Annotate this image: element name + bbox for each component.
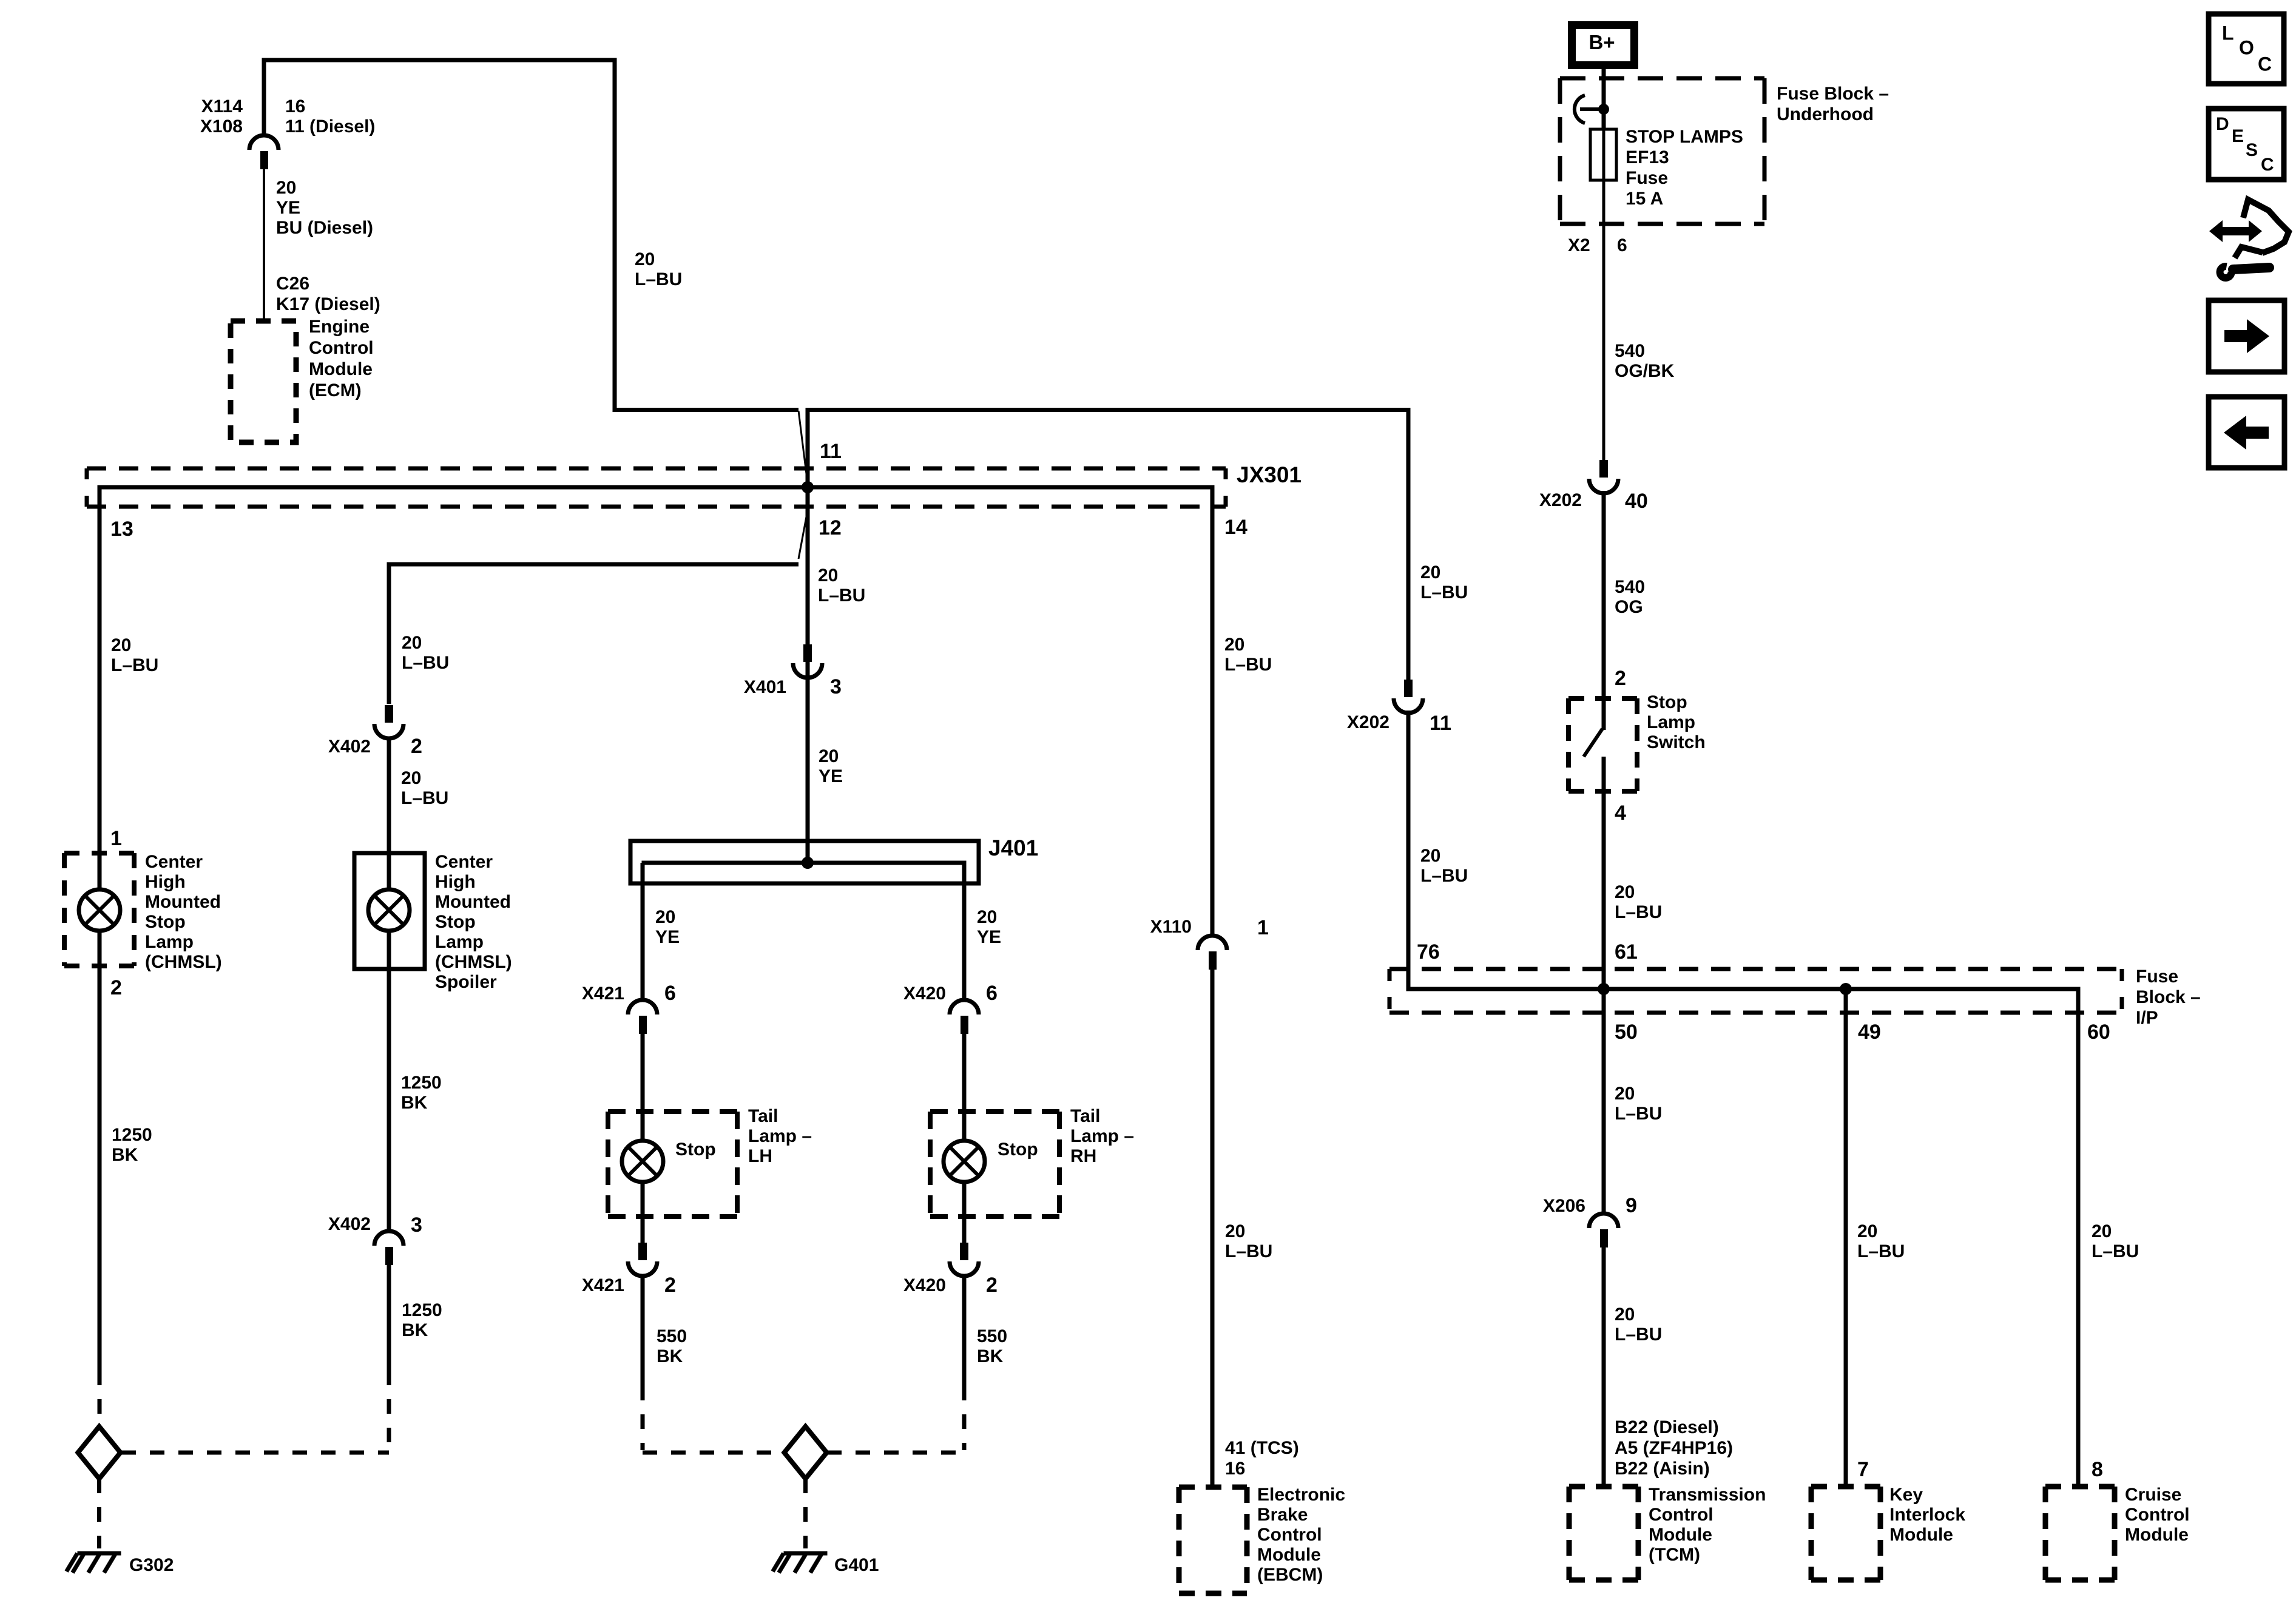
- svg-text:2: 2: [411, 735, 422, 758]
- svg-text:X2: X2: [1568, 235, 1590, 255]
- svg-text:2: 2: [664, 1274, 676, 1297]
- svg-text:20: 20: [1615, 882, 1635, 902]
- svg-text:Stop: Stop: [1647, 692, 1687, 712]
- svg-text:Lamp –: Lamp –: [1070, 1126, 1134, 1146]
- svg-text:550: 550: [977, 1326, 1007, 1346]
- svg-text:7: 7: [1857, 1458, 1869, 1481]
- svg-text:20: 20: [1615, 1084, 1635, 1104]
- svg-text:JX301: JX301: [1237, 462, 1302, 487]
- svg-text:L–BU: L–BU: [1420, 866, 1468, 886]
- svg-text:(CHMSL): (CHMSL): [145, 952, 222, 972]
- svg-text:Center: Center: [435, 852, 493, 872]
- svg-text:YE: YE: [276, 198, 300, 218]
- svg-text:Key: Key: [1889, 1485, 1923, 1505]
- svg-text:Brake: Brake: [1257, 1505, 1308, 1525]
- svg-text:20: 20: [977, 907, 997, 927]
- svg-text:E: E: [2232, 126, 2244, 146]
- svg-text:G302: G302: [129, 1555, 174, 1575]
- svg-text:20: 20: [818, 565, 838, 586]
- svg-text:Underhood: Underhood: [1777, 104, 1874, 124]
- svg-text:20: 20: [1857, 1221, 1877, 1241]
- svg-text:41 (TCS): 41 (TCS): [1225, 1438, 1299, 1458]
- svg-text:G401: G401: [834, 1555, 879, 1575]
- svg-text:Transmission: Transmission: [1649, 1485, 1766, 1505]
- svg-text:550: 550: [657, 1326, 687, 1346]
- svg-text:20: 20: [2092, 1221, 2112, 1241]
- svg-text:L–BU: L–BU: [2092, 1241, 2139, 1261]
- svg-text:Fuse: Fuse: [1626, 168, 1668, 188]
- svg-text:BK: BK: [112, 1145, 138, 1165]
- svg-text:20: 20: [1225, 1221, 1245, 1241]
- svg-text:16: 16: [1225, 1459, 1245, 1479]
- svg-text:I/P: I/P: [2136, 1008, 2158, 1028]
- svg-text:Electronic: Electronic: [1257, 1485, 1345, 1505]
- svg-text:BK: BK: [402, 1320, 428, 1340]
- svg-text:20: 20: [635, 249, 655, 269]
- svg-text:76: 76: [1417, 940, 1440, 964]
- svg-text:Lamp: Lamp: [1647, 712, 1695, 732]
- svg-text:Stop: Stop: [998, 1139, 1038, 1160]
- svg-text:BK: BK: [657, 1346, 683, 1366]
- svg-text:540: 540: [1615, 577, 1645, 597]
- svg-text:Stop: Stop: [145, 912, 186, 932]
- svg-text:BK: BK: [977, 1346, 1004, 1366]
- svg-text:A5 (ZF4HP16): A5 (ZF4HP16): [1615, 1438, 1733, 1458]
- svg-text:X206: X206: [1543, 1196, 1585, 1216]
- svg-text:Control: Control: [1649, 1505, 1714, 1525]
- svg-text:9: 9: [1626, 1194, 1637, 1217]
- svg-text:11: 11: [820, 440, 842, 463]
- svg-text:Module: Module: [1257, 1545, 1321, 1565]
- svg-text:(ECM): (ECM): [309, 380, 362, 400]
- svg-text:B22 (Aisin): B22 (Aisin): [1615, 1459, 1710, 1479]
- svg-text:J401: J401: [988, 836, 1038, 860]
- svg-text:L–BU: L–BU: [818, 586, 865, 606]
- svg-text:Tail: Tail: [1070, 1106, 1100, 1126]
- svg-text:High: High: [435, 872, 476, 892]
- svg-text:(EBCM): (EBCM): [1257, 1565, 1323, 1585]
- svg-text:X421: X421: [582, 984, 624, 1004]
- svg-text:Module: Module: [2125, 1525, 2189, 1545]
- svg-text:2: 2: [1615, 667, 1626, 690]
- svg-text:20: 20: [276, 178, 296, 198]
- svg-text:B22 (Diesel): B22 (Diesel): [1615, 1417, 1719, 1437]
- svg-text:Fuse: Fuse: [2136, 967, 2178, 987]
- svg-text:L–BU: L–BU: [401, 788, 448, 808]
- svg-text:S: S: [2246, 140, 2258, 160]
- svg-text:YE: YE: [655, 927, 680, 947]
- svg-text:Spoiler: Spoiler: [435, 972, 497, 992]
- svg-text:20: 20: [1615, 1305, 1635, 1325]
- svg-text:Switch: Switch: [1647, 732, 1706, 752]
- svg-text:L–BU: L–BU: [635, 269, 682, 289]
- svg-text:Module: Module: [309, 359, 373, 379]
- svg-text:X202: X202: [1539, 490, 1582, 510]
- svg-text:Cruise: Cruise: [2125, 1485, 2181, 1505]
- svg-text:4: 4: [1615, 802, 1626, 825]
- svg-text:Mounted: Mounted: [145, 892, 221, 912]
- svg-text:11: 11: [1430, 712, 1451, 735]
- svg-text:20: 20: [401, 768, 421, 788]
- svg-text:OG: OG: [1615, 597, 1643, 617]
- svg-text:K17 (Diesel): K17 (Diesel): [276, 294, 380, 314]
- svg-text:B+: B+: [1589, 31, 1615, 53]
- svg-text:STOP LAMPS: STOP LAMPS: [1626, 127, 1743, 147]
- svg-text:20: 20: [1420, 846, 1440, 866]
- svg-text:20: 20: [1224, 635, 1244, 655]
- svg-text:2: 2: [986, 1274, 998, 1297]
- svg-text:X110: X110: [1150, 917, 1192, 937]
- svg-text:Center: Center: [145, 852, 203, 872]
- svg-text:11 (Diesel): 11 (Diesel): [285, 116, 375, 137]
- svg-text:12: 12: [819, 516, 842, 539]
- svg-text:3: 3: [411, 1214, 422, 1237]
- svg-text:Module: Module: [1649, 1525, 1712, 1545]
- svg-text:L–BU: L–BU: [1615, 1104, 1662, 1124]
- svg-text:3: 3: [830, 675, 842, 698]
- svg-text:Control: Control: [2125, 1505, 2190, 1525]
- svg-text:L–BU: L–BU: [402, 653, 449, 673]
- svg-text:2: 2: [110, 976, 122, 999]
- svg-text:L: L: [2222, 22, 2234, 44]
- svg-text:(TCM): (TCM): [1649, 1545, 1700, 1565]
- svg-text:LH: LH: [748, 1146, 772, 1166]
- svg-text:YE: YE: [977, 927, 1001, 947]
- svg-text:Control: Control: [1257, 1525, 1322, 1545]
- svg-text:Fuse Block –: Fuse Block –: [1777, 84, 1889, 104]
- svg-text:D: D: [2216, 114, 2229, 134]
- svg-text:BK: BK: [401, 1093, 428, 1113]
- svg-text:EF13: EF13: [1626, 147, 1669, 167]
- svg-text:RH: RH: [1070, 1146, 1096, 1166]
- svg-text:L–BU: L–BU: [1420, 582, 1468, 603]
- svg-text:Stop: Stop: [435, 912, 476, 932]
- svg-text:40: 40: [1625, 490, 1648, 513]
- svg-text:60: 60: [2087, 1021, 2110, 1044]
- svg-text:6: 6: [1617, 235, 1627, 255]
- svg-text:C26: C26: [276, 274, 309, 294]
- svg-text:O: O: [2239, 36, 2254, 58]
- svg-text:BU (Diesel): BU (Diesel): [276, 218, 373, 238]
- svg-text:14: 14: [1224, 516, 1248, 539]
- svg-text:X402: X402: [328, 737, 371, 757]
- svg-text:Mounted: Mounted: [435, 892, 511, 912]
- svg-text:X108: X108: [200, 116, 243, 137]
- svg-text:16: 16: [285, 96, 305, 116]
- svg-text:13: 13: [110, 518, 133, 541]
- svg-text:540: 540: [1615, 341, 1645, 361]
- svg-text:1250: 1250: [112, 1125, 152, 1145]
- svg-text:1: 1: [110, 827, 122, 850]
- svg-text:Lamp –: Lamp –: [748, 1126, 812, 1146]
- svg-text:Interlock: Interlock: [1889, 1505, 1965, 1525]
- svg-text:Module: Module: [1889, 1525, 1953, 1545]
- svg-text:X420: X420: [903, 1275, 946, 1295]
- svg-text:50: 50: [1615, 1021, 1638, 1044]
- svg-text:L–BU: L–BU: [1224, 655, 1272, 675]
- svg-text:6: 6: [664, 982, 676, 1005]
- svg-text:OG/BK: OG/BK: [1615, 361, 1675, 381]
- svg-text:(CHMSL): (CHMSL): [435, 952, 512, 972]
- svg-text:Tail: Tail: [748, 1106, 778, 1126]
- svg-text:20: 20: [402, 633, 422, 653]
- svg-text:YE: YE: [819, 766, 843, 786]
- svg-text:X421: X421: [582, 1275, 624, 1295]
- svg-text:20: 20: [1420, 562, 1440, 582]
- svg-text:L–BU: L–BU: [1615, 1325, 1662, 1345]
- svg-text:61: 61: [1615, 940, 1638, 964]
- svg-text:C: C: [2261, 155, 2274, 175]
- svg-text:20: 20: [819, 746, 839, 766]
- svg-text:L–BU: L–BU: [1615, 902, 1662, 922]
- svg-text:Block –: Block –: [2136, 987, 2201, 1007]
- svg-text:X202: X202: [1347, 712, 1389, 732]
- svg-text:X401: X401: [744, 677, 786, 697]
- svg-text:X420: X420: [903, 984, 946, 1004]
- svg-text:Lamp: Lamp: [145, 932, 194, 952]
- svg-text:15 A: 15 A: [1626, 189, 1663, 209]
- svg-text:Stop: Stop: [675, 1139, 716, 1160]
- svg-text:Engine: Engine: [309, 317, 370, 337]
- svg-text:C: C: [2258, 53, 2272, 75]
- svg-text:20: 20: [111, 635, 131, 655]
- svg-text:1250: 1250: [402, 1300, 442, 1320]
- svg-text:49: 49: [1858, 1021, 1881, 1044]
- svg-text:L–BU: L–BU: [1225, 1241, 1272, 1261]
- svg-text:Lamp: Lamp: [435, 932, 484, 952]
- svg-text:L–BU: L–BU: [1857, 1241, 1905, 1261]
- svg-text:20: 20: [655, 907, 675, 927]
- svg-text:L–BU: L–BU: [111, 655, 158, 675]
- svg-text:X114: X114: [201, 96, 243, 116]
- svg-text:High: High: [145, 872, 186, 892]
- svg-text:1250: 1250: [401, 1073, 442, 1093]
- svg-text:1: 1: [1257, 916, 1269, 939]
- svg-text:Control: Control: [309, 338, 374, 358]
- svg-text:X402: X402: [328, 1214, 371, 1234]
- svg-text:6: 6: [986, 982, 998, 1005]
- svg-text:8: 8: [2092, 1458, 2103, 1481]
